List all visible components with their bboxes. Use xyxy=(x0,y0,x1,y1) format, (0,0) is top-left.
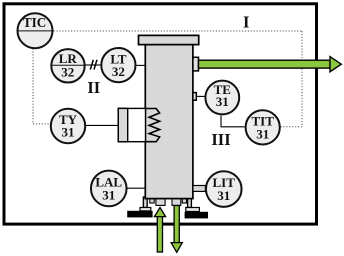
svg-text:TIC: TIC xyxy=(23,15,46,30)
svg-text:32: 32 xyxy=(61,65,74,80)
instrument TE 31 xyxy=(205,81,239,115)
dashed line region I bottom to TIT xyxy=(281,126,302,128)
svg-text:31: 31 xyxy=(62,124,75,139)
svg-text:II: II xyxy=(87,78,100,97)
bottom stub small left xyxy=(150,198,154,203)
instrument TIC xyxy=(18,13,53,48)
vessel support leg right xyxy=(188,197,192,208)
dashed signal line TIC down to TY xyxy=(33,49,50,124)
feed inflow arrow (bottom, green, pointing up) xyxy=(154,208,165,253)
vessel body xyxy=(145,45,193,199)
wire LR to LT xyxy=(86,64,101,66)
foot bar right xyxy=(185,212,208,219)
foot bar left xyxy=(127,211,152,218)
bottom inlet nozzle xyxy=(156,198,165,205)
instrument TY 31 xyxy=(51,109,85,143)
LIT nozzle pipe xyxy=(193,186,206,192)
wire TE to TIT xyxy=(221,116,245,127)
svg-text:31: 31 xyxy=(102,187,115,202)
heater body TY xyxy=(118,108,145,141)
svg-text:I: I xyxy=(243,13,249,32)
base plate left xyxy=(140,208,151,211)
instrument LT 32 xyxy=(101,48,135,82)
wire LAL to vessel xyxy=(127,187,146,189)
dashed region I right edge xyxy=(301,31,303,127)
outer boundary box xyxy=(4,4,317,224)
instrument LIT 31 xyxy=(206,171,242,207)
heating element zigzag xyxy=(145,109,160,142)
bottom stub small right xyxy=(182,198,186,203)
wire TE nozzle to TE xyxy=(196,95,205,97)
instrument TIT 31 xyxy=(246,110,280,144)
svg-text:31: 31 xyxy=(256,126,269,141)
product outflow arrow (top, green) xyxy=(199,57,342,72)
svg-text:III: III xyxy=(211,130,230,149)
svg-text:32: 32 xyxy=(112,64,125,79)
svg-text:31: 31 xyxy=(216,94,229,109)
bottom outlet nozzle xyxy=(172,198,181,205)
vessel top cap xyxy=(139,35,199,44)
instrument LR 32 xyxy=(51,49,84,82)
heater flange gray band xyxy=(118,108,127,141)
base plate right xyxy=(186,208,200,212)
vessel support leg left xyxy=(143,197,147,208)
TE nozzle xyxy=(193,93,196,101)
wire TY to heater xyxy=(86,124,120,126)
drain outflow arrow (bottom, green, pointing down) xyxy=(171,206,182,253)
dashed signal line TIC to region I (top) xyxy=(54,30,303,32)
instrument LAL 31 xyxy=(91,171,127,207)
svg-text:31: 31 xyxy=(217,188,230,203)
wire LT to vessel xyxy=(136,64,145,66)
signal break slashes xyxy=(90,60,97,70)
top outlet nozzle xyxy=(193,57,199,71)
